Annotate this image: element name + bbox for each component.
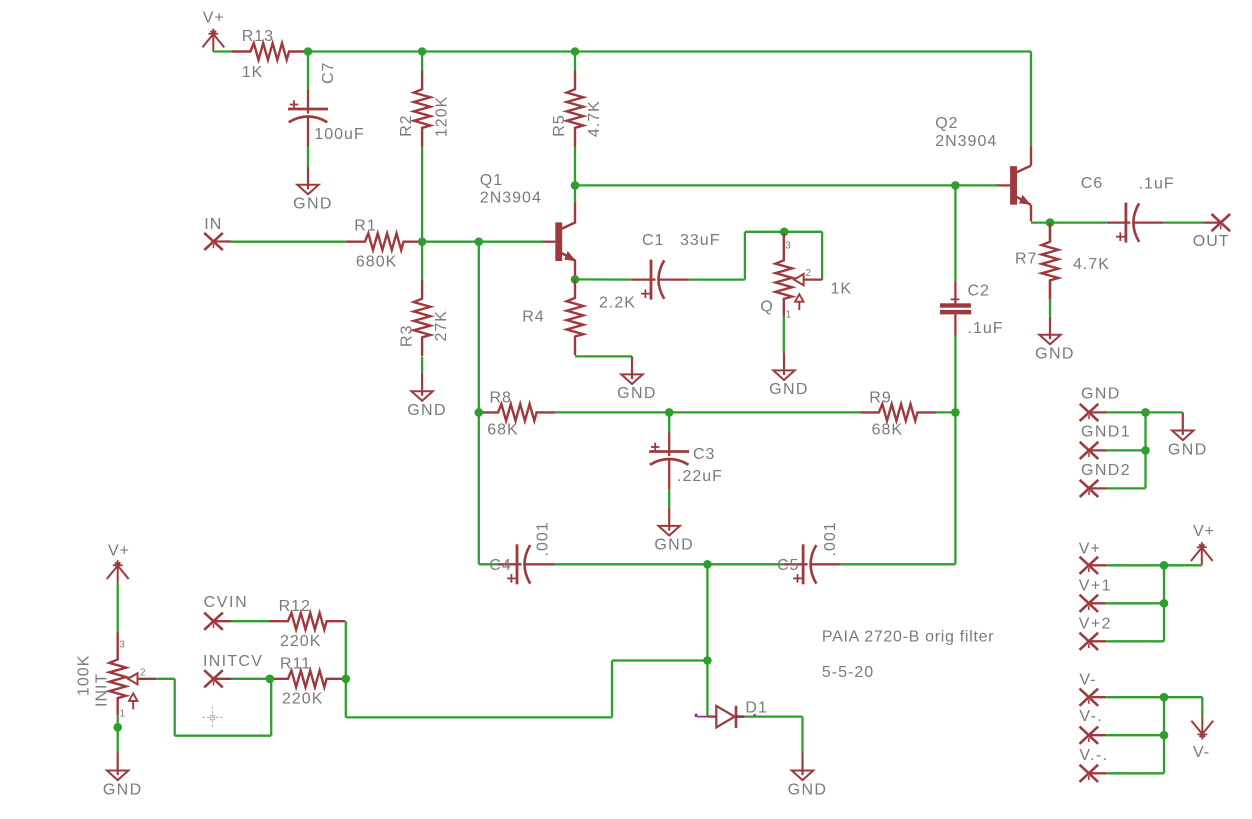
svg-text:GND: GND bbox=[769, 381, 809, 398]
svg-text:GND: GND bbox=[788, 781, 828, 798]
svg-text:R1: R1 bbox=[354, 218, 376, 235]
svg-text:GND: GND bbox=[1081, 385, 1121, 402]
svg-text:OUT: OUT bbox=[1193, 233, 1230, 250]
svg-text:GND: GND bbox=[103, 781, 143, 798]
svg-text:CVIN: CVIN bbox=[204, 594, 249, 611]
svg-text:100uF: 100uF bbox=[314, 126, 364, 143]
svg-text:INIT: INIT bbox=[94, 673, 111, 707]
svg-text:2: 2 bbox=[806, 268, 813, 279]
svg-text:68K: 68K bbox=[872, 422, 903, 439]
svg-text:220K: 220K bbox=[280, 633, 321, 650]
svg-text:GND: GND bbox=[293, 196, 333, 213]
svg-text:68K: 68K bbox=[487, 422, 518, 439]
svg-text:1K: 1K bbox=[242, 64, 264, 81]
svg-text:R2: R2 bbox=[398, 114, 415, 136]
svg-text:3: 3 bbox=[119, 639, 126, 650]
svg-text:R13: R13 bbox=[242, 28, 274, 45]
svg-text:120K: 120K bbox=[433, 96, 450, 137]
svg-text:3: 3 bbox=[785, 240, 792, 251]
svg-text:R12: R12 bbox=[279, 598, 311, 615]
svg-text:C3: C3 bbox=[693, 446, 715, 463]
svg-text:.001: .001 bbox=[535, 521, 552, 556]
svg-text:5-5-20: 5-5-20 bbox=[822, 664, 874, 681]
svg-text:R11: R11 bbox=[280, 656, 311, 673]
svg-text:C1: C1 bbox=[642, 232, 664, 249]
svg-text:V+: V+ bbox=[203, 10, 225, 27]
svg-text:.001: .001 bbox=[822, 521, 839, 556]
svg-text:V-.: V-. bbox=[1079, 708, 1103, 725]
svg-text:IN: IN bbox=[204, 216, 222, 233]
svg-text:PAIA 2720-B orig filter: PAIA 2720-B orig filter bbox=[822, 628, 994, 645]
svg-text:GND: GND bbox=[1168, 441, 1208, 458]
svg-text:2N3904: 2N3904 bbox=[480, 190, 542, 207]
svg-text:220K: 220K bbox=[282, 690, 323, 707]
svg-text:GND: GND bbox=[654, 537, 694, 554]
svg-text:4.7K: 4.7K bbox=[586, 100, 603, 137]
svg-text:.22uF: .22uF bbox=[677, 468, 723, 485]
svg-text:100K: 100K bbox=[76, 655, 93, 696]
svg-text:C4: C4 bbox=[489, 557, 511, 574]
svg-text:.1uF: .1uF bbox=[1139, 176, 1175, 193]
svg-text:GND: GND bbox=[617, 385, 657, 402]
svg-text:1: 1 bbox=[120, 708, 127, 719]
svg-text:Q: Q bbox=[760, 299, 773, 316]
svg-text:V+: V+ bbox=[1079, 541, 1101, 558]
svg-text:2.2K: 2.2K bbox=[599, 295, 636, 312]
svg-text:GND2: GND2 bbox=[1081, 462, 1131, 479]
svg-text:R9: R9 bbox=[869, 389, 891, 406]
svg-text:V-: V- bbox=[1079, 672, 1096, 689]
svg-text:INITCV: INITCV bbox=[203, 653, 263, 670]
svg-text:GND: GND bbox=[1035, 346, 1075, 363]
svg-text:2N3904: 2N3904 bbox=[935, 133, 997, 150]
svg-text:V-: V- bbox=[1193, 744, 1210, 761]
svg-text:R5: R5 bbox=[551, 114, 568, 136]
svg-text:C2: C2 bbox=[968, 283, 990, 300]
svg-text:Q2: Q2 bbox=[935, 115, 958, 132]
svg-text:D1: D1 bbox=[745, 700, 767, 717]
svg-text:V+2: V+2 bbox=[1079, 616, 1112, 633]
svg-text:.1uF: .1uF bbox=[968, 320, 1004, 337]
svg-text:V+1: V+1 bbox=[1079, 577, 1112, 594]
svg-text:V+: V+ bbox=[108, 543, 130, 560]
svg-text:4.7K: 4.7K bbox=[1073, 256, 1110, 273]
svg-text:R4: R4 bbox=[522, 309, 544, 326]
svg-text:C5: C5 bbox=[777, 557, 799, 574]
svg-text:27K: 27K bbox=[433, 310, 450, 341]
svg-text:R7: R7 bbox=[1015, 251, 1037, 268]
svg-text:R3: R3 bbox=[399, 325, 416, 347]
svg-text:Q1: Q1 bbox=[480, 172, 503, 189]
svg-text:2: 2 bbox=[140, 667, 147, 678]
svg-text:GND: GND bbox=[407, 402, 447, 419]
svg-text:GND1: GND1 bbox=[1081, 424, 1131, 441]
svg-text:680K: 680K bbox=[356, 254, 397, 271]
svg-text:V.-.: V.-. bbox=[1079, 747, 1108, 764]
svg-text:33uF: 33uF bbox=[680, 232, 720, 249]
svg-text:1K: 1K bbox=[831, 280, 853, 297]
svg-text:C7: C7 bbox=[320, 62, 337, 84]
svg-text:R8: R8 bbox=[490, 389, 512, 406]
svg-text:C6: C6 bbox=[1081, 175, 1103, 192]
svg-text:V+: V+ bbox=[1193, 523, 1215, 540]
svg-text:1: 1 bbox=[786, 309, 793, 320]
